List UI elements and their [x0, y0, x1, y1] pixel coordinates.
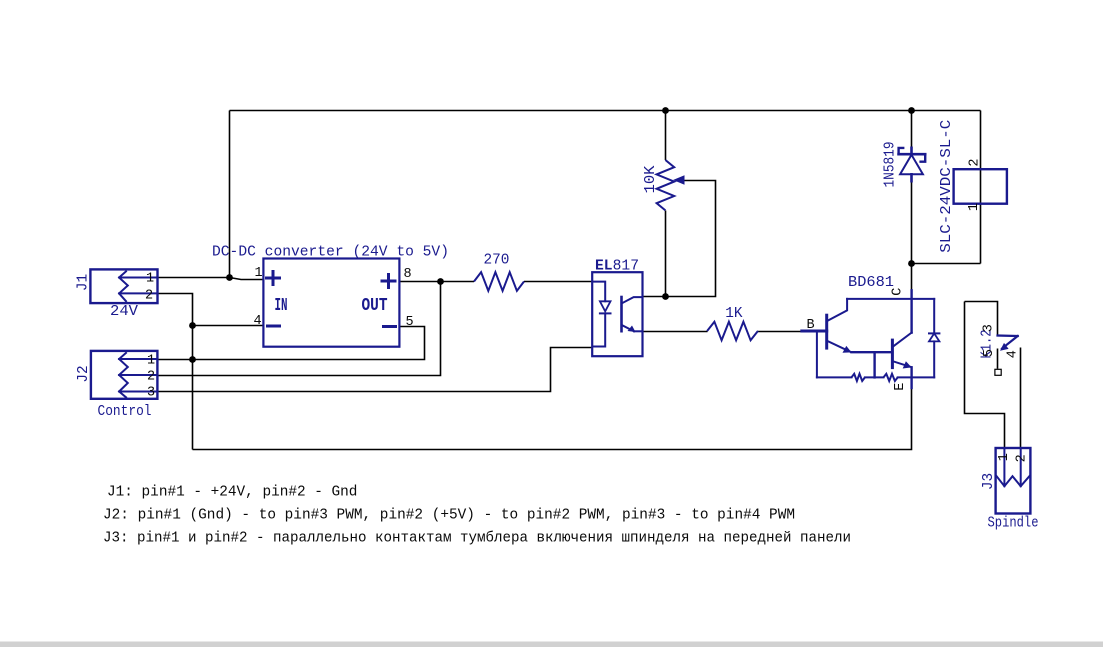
svg-text:1: 1: [997, 453, 1012, 461]
svg-text:1N5819: 1N5819: [883, 142, 899, 188]
svg-text:1: 1: [147, 353, 155, 368]
svg-text:2: 2: [147, 369, 155, 384]
svg-text:J3: J3: [981, 473, 997, 490]
svg-text:5: 5: [982, 349, 997, 357]
svg-text:2: 2: [1015, 454, 1030, 462]
svg-text:J2: J2: [76, 365, 92, 382]
svg-text:B: B: [807, 318, 815, 333]
svg-text:OUT: OUT: [362, 296, 388, 316]
svg-text:J1: J1: [76, 274, 92, 291]
svg-text:3: 3: [147, 386, 155, 401]
svg-text:270: 270: [484, 253, 510, 269]
svg-text:C: C: [891, 288, 906, 296]
svg-text:1: 1: [254, 266, 262, 281]
svg-text:8: 8: [403, 267, 411, 282]
svg-text:4: 4: [1006, 350, 1021, 358]
svg-text:1: 1: [967, 203, 982, 211]
svg-text:BD681: BD681: [848, 275, 894, 291]
svg-text:1K: 1K: [725, 306, 743, 322]
svg-text:4: 4: [253, 314, 261, 329]
svg-text:J3: pin#1 и pin#2 - параллельн: J3: pin#1 и pin#2 - параллельно контакта…: [103, 530, 851, 547]
svg-text:1: 1: [146, 272, 154, 287]
svg-text:5: 5: [405, 315, 413, 330]
svg-text:SLC-24VDC-SL-C: SLC-24VDC-SL-C: [939, 120, 955, 253]
svg-text:10K: 10K: [643, 165, 659, 193]
svg-text:24V: 24V: [110, 304, 138, 320]
svg-text:EL817: EL817: [595, 259, 639, 275]
svg-text:J1: pin#1 - +24V, pin#2 - Gnd: J1: pin#1 - +24V, pin#2 - Gnd: [107, 485, 357, 501]
svg-text:E: E: [893, 383, 908, 391]
svg-text:2: 2: [145, 289, 153, 304]
svg-text:3: 3: [982, 324, 997, 332]
svg-text:DC-DC converter (24V to 5V): DC-DC converter (24V to 5V): [212, 245, 449, 261]
svg-text:J2: pin#1 (Gnd) - to pin#3 PWM: J2: pin#1 (Gnd) - to pin#3 PWM, pin#2 (+…: [103, 508, 795, 524]
svg-text:Spindle: Spindle: [988, 516, 1039, 532]
svg-text:2: 2: [968, 159, 983, 167]
svg-text:IN: IN: [275, 296, 288, 316]
svg-text:Control: Control: [98, 404, 152, 420]
